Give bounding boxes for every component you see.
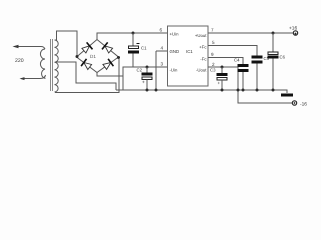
wire secondary center tap to ground bus <box>55 62 116 90</box>
transformer T1 primary winding <box>40 49 45 78</box>
svg-text:6: 6 <box>160 28 163 33</box>
wire mains input bottom lead <box>21 75 46 79</box>
svg-text:-16: -16 <box>300 102 307 108</box>
svg-text:2: 2 <box>212 62 215 67</box>
wire bottom ground bus <box>116 90 287 93</box>
capacitor C2 <box>137 67 153 90</box>
transformer T1 core <box>51 39 53 91</box>
svg-text:7: 7 <box>211 28 214 33</box>
wire -Uin line into IC <box>133 66 167 68</box>
svg-text:C1: C1 <box>141 46 147 51</box>
bridge diode top-right <box>102 42 113 53</box>
terminal -16 <box>292 101 296 105</box>
wire mains input top lead <box>14 47 45 50</box>
svg-text:-Uin: -Uin <box>170 68 178 73</box>
svg-text:+Uin: +Uin <box>170 32 180 37</box>
bridge diode bottom-left <box>81 59 92 70</box>
diode bridge D1 frame <box>77 40 119 73</box>
svg-text:+Uout: +Uout <box>195 33 207 38</box>
svg-text:9: 9 <box>211 52 214 57</box>
wire -Uout line <box>208 67 292 103</box>
transformer T1 secondary winding <box>55 40 59 92</box>
mains input arrowhead bottom <box>20 77 25 80</box>
svg-text:+: + <box>142 81 145 86</box>
node C3 top junction <box>221 66 224 69</box>
wire GND pin to bottom bus <box>155 51 157 90</box>
wire secondary top to bridge AC1 <box>55 31 77 55</box>
svg-text:220: 220 <box>15 58 24 64</box>
svg-text:-Uout: -Uout <box>196 68 207 73</box>
node C2 top junction <box>146 66 149 69</box>
wire secondary bottom to bridge AC2 <box>55 59 119 93</box>
svg-text:+: + <box>218 81 221 86</box>
svg-text:C3: C3 <box>210 68 216 73</box>
svg-text:C4: C4 <box>234 58 240 63</box>
node C6 top junction <box>272 32 275 35</box>
wire +Uout to +16 terminal <box>208 32 293 34</box>
svg-text:+Fc: +Fc <box>199 45 207 50</box>
terminal +16 <box>293 31 297 35</box>
svg-text:-Fc: -Fc <box>200 57 207 62</box>
capacitor C1 <box>128 33 147 67</box>
IC U1 body <box>168 26 209 86</box>
bridge diode bottom-right <box>103 59 114 70</box>
svg-text:+16: +16 <box>289 26 297 32</box>
svg-text:4: 4 <box>161 46 164 51</box>
node bus junctions <box>221 89 224 92</box>
wire +Fc to C5 <box>208 46 257 56</box>
svg-text:5: 5 <box>212 40 215 45</box>
wire GND pin stub <box>156 50 167 52</box>
svg-text:C2: C2 <box>137 68 143 73</box>
svg-text:IC1: IC1 <box>186 49 193 54</box>
ground symbol <box>281 94 293 97</box>
capacitor C5 <box>252 56 270 91</box>
capacitor C3 <box>210 67 228 90</box>
svg-text:GND: GND <box>170 49 180 54</box>
svg-text:C6: C6 <box>280 55 286 60</box>
mains input arrowhead top <box>13 45 19 49</box>
capacitor C6 <box>268 33 286 90</box>
node C1 top junction <box>132 32 135 35</box>
node GND rail bus junction <box>155 89 158 92</box>
wire bridge negative drop <box>97 73 123 77</box>
wire bridge positive to +Uin rail <box>97 33 167 40</box>
node bridge AC1 junction <box>76 55 79 58</box>
node C2 bottom bus junction <box>146 89 149 92</box>
capacitor C4 <box>234 58 249 91</box>
svg-text:3: 3 <box>161 62 164 67</box>
node bridge AC2 junction <box>117 56 120 59</box>
bridge diode top-left <box>82 42 93 53</box>
wire negative rail riser to -Uin line <box>123 67 133 90</box>
wire -Fc to C4 <box>208 58 243 65</box>
svg-text:D1: D1 <box>90 54 96 59</box>
